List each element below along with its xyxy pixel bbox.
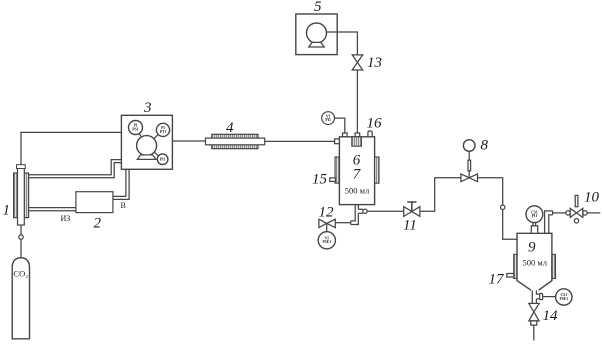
wire valve 14 drain — [533, 325, 535, 340]
valve 10 left flange — [566, 211, 570, 215]
valve 8 — [461, 174, 478, 182]
svg-text:10: 10 — [584, 190, 600, 206]
pump 5 box — [296, 14, 337, 55]
valve 8 stem — [468, 151, 470, 178]
svg-text:PI1: PI1 — [325, 118, 331, 122]
svg-text:CO₂: CO₂ — [13, 269, 28, 279]
vessel 6 left heater bar — [335, 157, 339, 183]
svg-text:2: 2 — [94, 216, 102, 232]
wire CO2 cylinder to element 1 — [20, 225, 22, 258]
pump 5 base — [309, 42, 324, 47]
svg-text:1: 1 — [3, 203, 11, 219]
valve 14 bottom fitting — [531, 321, 537, 325]
pump 3 head — [137, 136, 157, 156]
wire tee to valve 11 — [367, 210, 404, 212]
vessel 9 right bar — [552, 254, 556, 278]
pump 3 box — [121, 115, 172, 169]
heat exchanger 4 tube — [206, 138, 265, 145]
pipe union fitting — [501, 205, 505, 209]
wire pump 3 to heat exchanger 4 — [172, 140, 205, 142]
svg-text:13: 13 — [367, 55, 382, 71]
gauge PI1 — [157, 154, 168, 165]
vessel 6 top cap A — [343, 133, 348, 137]
valve 13 — [352, 55, 363, 70]
gauge CS1/PI1 — [526, 206, 543, 223]
valve 14 — [529, 303, 539, 321]
svg-text:500 мл: 500 мл — [345, 186, 370, 196]
svg-text:11: 11 — [403, 218, 417, 234]
wire elbow to valve 10 — [553, 212, 566, 214]
svg-text:PI1: PI1 — [532, 214, 538, 218]
svg-text:12: 12 — [319, 205, 335, 221]
svg-text:3: 3 — [143, 100, 152, 116]
coolant pipe element1 to pump3 head (double line) — [29, 160, 122, 178]
gauge CS1/PSE1 — [556, 289, 572, 305]
svg-text:9: 9 — [528, 239, 536, 255]
vessel 9 outlet elbow to valve 10 — [545, 211, 553, 233]
gauge VI/PSE1 — [318, 232, 335, 249]
svg-text:16: 16 — [367, 115, 383, 131]
vessel 6 bottom tee fitting — [351, 205, 363, 225]
element 1 jacket (cooler) — [14, 173, 29, 218]
stub 17 — [507, 274, 514, 278]
valve 10 — [570, 208, 583, 217]
element 1 inner tube — [18, 165, 25, 225]
svg-text:PSE1: PSE1 — [322, 240, 331, 244]
gauge PT1 — [156, 123, 169, 136]
svg-text:PT1: PT1 — [160, 130, 167, 134]
svg-text:PSE1: PSE1 — [559, 297, 568, 301]
wire valve 10 out — [587, 212, 600, 214]
thermostat 2 — [76, 192, 113, 213]
wire gauge to vessel 6 top — [335, 118, 345, 133]
svg-text:8: 8 — [481, 138, 489, 154]
heat exchanger 4 jacket — [212, 134, 258, 148]
vessel 9 top gauge stem — [533, 223, 536, 226]
pump 5 head — [307, 23, 327, 43]
valve 10 right flange — [583, 211, 587, 215]
svg-text:5: 5 — [314, 0, 322, 15]
vessel 6 right heater bar — [375, 157, 379, 183]
cylinder valve — [19, 235, 23, 239]
valve 10 bottom drain — [574, 219, 578, 223]
vessel 9 (separator) — [517, 233, 552, 290]
vessel 6 top cap B — [355, 133, 360, 137]
gauge PS1 — [129, 121, 143, 135]
valve 12 — [319, 219, 335, 227]
element 1 top cap — [17, 165, 26, 169]
svg-text:15: 15 — [312, 172, 328, 188]
svg-text:В: В — [121, 201, 126, 210]
svg-text:ИЗ: ИЗ — [61, 214, 71, 223]
valve 8 needle — [468, 160, 471, 171]
svg-text:PS1: PS1 — [132, 127, 138, 131]
coolant pipe thermostat 2 to pump 3 (double line) — [113, 169, 129, 199]
wire valve 12 to gauge — [326, 223, 328, 231]
vessel 6 (extractor) — [339, 137, 374, 205]
svg-text:14: 14 — [543, 308, 559, 324]
gauge VI/PI1 at vessel 6 — [322, 112, 335, 125]
stub 15 — [330, 178, 336, 182]
wire element 1 to pump 3 — [21, 132, 121, 165]
svg-text:17: 17 — [489, 272, 506, 288]
wire elbow to valve 12 — [335, 222, 350, 224]
vessel 9 bottom tee — [532, 290, 539, 303]
valve 10 needle stem — [575, 195, 578, 206]
svg-text:PI1: PI1 — [160, 158, 166, 162]
valve 11 — [404, 207, 420, 217]
svg-text:4: 4 — [226, 120, 234, 136]
wire valve 11 to valve 8 — [420, 178, 461, 212]
wire tee to gauge — [543, 296, 556, 298]
svg-text:500 мл: 500 мл — [523, 257, 548, 267]
wire valve 13 to vessel 6 — [356, 70, 358, 133]
tee coupling bead — [363, 209, 367, 213]
vessel 9 left bar — [514, 254, 517, 278]
port 16 stub — [368, 131, 372, 137]
pump 3 base — [137, 155, 156, 160]
wire valve 8 to vessel 9 — [478, 178, 518, 239]
valve 8 actuator circle — [463, 140, 475, 152]
valve 11 T-handle — [407, 202, 416, 212]
vessel 6 inlet fitting — [335, 139, 340, 144]
CO2 cylinder — [12, 258, 29, 339]
coolant pipe element1 to thermostat 2 (double line) — [29, 208, 76, 211]
wire heat exchanger 4 to vessel 6 — [265, 140, 335, 142]
vessel 6 inner notch — [352, 137, 362, 146]
pump 3 gauge links — [139, 134, 158, 156]
wire pump 5 to valve 13 — [326, 32, 357, 55]
